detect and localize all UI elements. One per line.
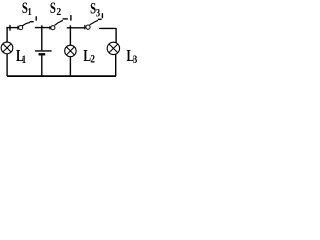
- svg-text:1: 1: [28, 6, 32, 18]
- svg-text:2: 2: [56, 7, 61, 19]
- svg-text:3: 3: [96, 7, 100, 19]
- svg-text:1: 1: [22, 54, 26, 66]
- svg-text:2: 2: [90, 54, 95, 66]
- svg-text:S: S: [50, 0, 56, 17]
- svg-text:3: 3: [133, 54, 138, 66]
